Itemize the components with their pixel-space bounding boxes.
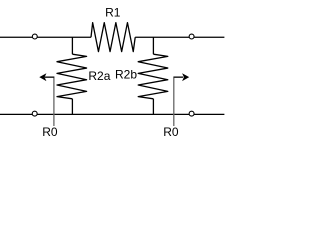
wire top rail left segment (0, 36, 91, 38)
terminal circle top-left (32, 34, 37, 39)
terminal circle bottom-left (32, 111, 37, 116)
resistor R2a (57, 37, 87, 114)
label R0 right (163, 125, 179, 139)
label R0 left (42, 125, 58, 139)
svg-text:R1: R1 (105, 5, 121, 19)
resistor R2b (138, 37, 168, 114)
svg-text:R0: R0 (42, 125, 58, 139)
resistor R1 (91, 23, 135, 52)
wire bottom rail (0, 113, 224, 115)
svg-text:R2b: R2b (115, 68, 137, 82)
arrow R0 right (stem + head) (173, 73, 189, 126)
terminal circle bottom-right (189, 111, 194, 116)
arrow R0 left (stem + head) (39, 73, 54, 126)
label R2a (88, 69, 110, 83)
svg-text:R2a: R2a (88, 69, 110, 83)
terminal circle top-right (189, 34, 194, 39)
svg-text:R0: R0 (163, 125, 179, 139)
label R2b (115, 68, 137, 82)
wire top rail right segment (135, 36, 224, 38)
label R1 (105, 5, 121, 19)
